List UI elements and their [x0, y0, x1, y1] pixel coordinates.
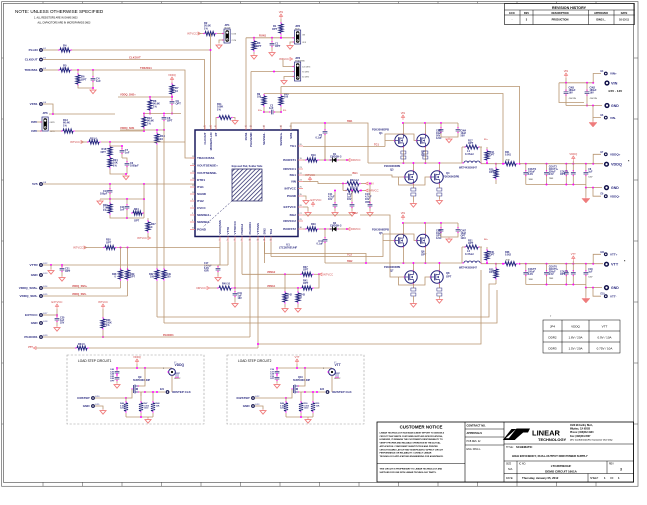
capacitor C11b — [328, 190, 338, 217]
terminal E15 VDDQ_SNS- — [20, 294, 49, 298]
capacitor C8o — [584, 164, 594, 185]
svg-text:10-13-11: 10-13-11 — [619, 19, 629, 22]
svg-text:1210: 1210 — [120, 408, 126, 410]
svg-text:INTVCC: INTVCC — [187, 32, 197, 36]
svg-text:1nF: 1nF — [125, 151, 130, 155]
svg-text:RT: RT — [214, 132, 218, 136]
svg-text:PGND: PGND — [197, 228, 207, 232]
wire VIN loop — [559, 83, 584, 103]
svg-text:DESCRIPTION: DESCRIPTION — [551, 12, 568, 15]
svg-text:OPT: OPT — [65, 270, 71, 273]
transistor Q10 SUD50N03-09P — [291, 368, 310, 394]
svg-text:7343: 7343 — [549, 178, 553, 180]
svg-text:7343: 7343 — [549, 278, 553, 280]
svg-text:DATE:: DATE: — [506, 477, 513, 480]
resistor R39 — [162, 268, 172, 323]
wire VIN rail ch2 — [402, 222, 458, 224]
wire PGOOD drop — [249, 242, 251, 337]
svg-text:SGND: SGND — [197, 192, 207, 196]
terminal E1 PLLIN — [29, 48, 47, 52]
svg-text:4.5V - 14V: 4.5V - 14V — [608, 89, 622, 93]
power flag VDDQ — [569, 152, 577, 164]
svg-text:VRNG2: VRNG2 — [267, 271, 276, 274]
wire sense1+ rail — [281, 87, 520, 164]
svg-text:2010: 2010 — [506, 159, 510, 161]
svg-text:OSCON: OSCON — [569, 98, 577, 100]
transistor Q4 PJK3006DPB — [430, 162, 460, 188]
svg-text:LTC Confidential-For Customer: LTC Confidential-For Customer Use Only — [570, 438, 613, 441]
wire ITHRG2 drop — [241, 242, 243, 274]
U1 refdes — [279, 243, 298, 250]
svg-text:E10: E10 — [601, 294, 606, 296]
svg-text:ITHRG2: ITHRG2 — [240, 224, 244, 235]
capacitor C7 — [110, 145, 130, 158]
svg-text:R24: R24 — [134, 208, 139, 211]
svg-text:TECHNOLOGY APPLICATIONS ENGINE: TECHNOLOGY APPLICATIONS ENGINEERING FOR … — [380, 455, 444, 458]
wire BG2 — [303, 212, 399, 277]
svg-text:VDDQ_SNS-: VDDQ_SNS- — [72, 293, 87, 296]
wire SW1 — [291, 120, 368, 163]
wire bus A — [157, 284, 496, 317]
resistor R33b — [303, 223, 330, 231]
svg-text:100: 100 — [167, 276, 172, 279]
resistor R29 — [126, 248, 136, 297]
transistor Q9 SUD50N03-09P — [131, 368, 150, 394]
resistor R46 — [120, 398, 128, 417]
resistor R3 — [252, 38, 262, 54]
svg-text:OPT: OPT — [421, 253, 427, 257]
wire VDDQ out jog — [593, 154, 601, 163]
svg-text:DRVCC: DRVCC — [351, 227, 361, 231]
svg-text:TRACK/SS1: TRACK/SS1 — [197, 156, 215, 160]
svg-text:CIRCUIT BOARD LAYOUT MAY SIGNI: CIRCUIT BOARD LAYOUT MAY SIGNIFICANTLY A… — [380, 448, 444, 451]
resistor R17 — [462, 140, 482, 150]
approvals column — [465, 425, 504, 452]
power INTVCC — [303, 173, 318, 182]
capacitor C1 — [270, 38, 281, 51]
wire bus B — [164, 290, 497, 323]
wire phasemd — [251, 71, 293, 131]
terminal VIN — [604, 80, 617, 85]
svg-text:PRODUCTION: PRODUCTION — [552, 19, 569, 22]
svg-text:DRVCC: DRVCC — [369, 189, 379, 193]
svg-text:SW1: SW1 — [289, 132, 293, 139]
resistor R14 — [155, 132, 165, 269]
svg-text:RUN1: RUN1 — [259, 34, 267, 38]
wire jp3 gnd — [284, 77, 293, 80]
capacitor CIN3 — [564, 83, 577, 106]
svg-text:INTVCC: INTVCC — [305, 173, 315, 177]
svg-text:R25 22: R25 22 — [350, 187, 359, 190]
svg-text:VDDQ: VDDQ — [611, 163, 622, 167]
svg-text:SUD50N03-09P: SUD50N03-09P — [293, 379, 311, 382]
svg-text:Q3: Q3 — [390, 168, 394, 172]
terminal GND out2 — [604, 285, 619, 290]
power flag VIN — [564, 69, 569, 83]
wire VDDQ_SNS — [120, 129, 164, 133]
svg-text:0.9V / 10A: 0.9V / 10A — [597, 336, 611, 340]
svg-text:SW2: SW2 — [347, 260, 353, 263]
svg-text:LOAD STEP CIRCUIT2: LOAD STEP CIRCUIT2 — [238, 359, 272, 363]
svg-text:PHASEMD: PHASEMD — [249, 133, 253, 147]
svg-text:TG2: TG2 — [269, 228, 273, 234]
svg-text:Q8: Q8 — [446, 271, 450, 275]
svg-text:VTT+: VTT+ — [610, 253, 618, 257]
wire CLKOUT — [43, 60, 205, 131]
wire extvcc — [43, 309, 58, 317]
svg-text:DCM: DCM — [232, 33, 237, 35]
svg-text:TECHNOLOGY: TECHNOLOGY — [538, 437, 567, 442]
svg-text:Q5: Q5 — [379, 231, 383, 235]
svg-text:CONTRACT NO.: CONTRACT NO. — [467, 425, 486, 428]
wire VDDQ rail — [520, 163, 603, 165]
svg-text:SENSE1-: SENSE1- — [262, 132, 266, 144]
capacitor C10 — [100, 184, 112, 199]
wire Q8 gate — [399, 277, 431, 285]
wire SW2 label drop — [264, 242, 266, 263]
power INTVCC flag — [98, 300, 108, 309]
wire VTT out jog — [593, 254, 601, 263]
svg-text:VIN: VIN — [401, 111, 406, 115]
net label SW2 — [347, 260, 353, 263]
wire JP6 pins — [37, 122, 62, 131]
svg-text:E21: E21 — [160, 389, 165, 391]
svg-text:HIGH EFFICIENCY, DUAL-OUTPUT D: HIGH EFFICIENCY, DUAL-OUTPUT DDR POWER S… — [512, 454, 588, 458]
svg-text:VOUTSENSE-: VOUTSENSE- — [197, 171, 217, 175]
bnc jack J2 VDDQ — [163, 362, 184, 392]
ground — [269, 51, 275, 56]
capacitor CIN4 — [449, 123, 467, 138]
net label VDDQ_SNS+ — [120, 93, 136, 97]
svg-text:OPT: OPT — [275, 44, 281, 48]
resistor R17b — [108, 156, 126, 174]
resistor R5 — [58, 64, 71, 73]
terminal E8 5V5 — [32, 182, 47, 186]
svg-text:Phone: (408)432-1900: Phone: (408)432-1900 — [570, 431, 594, 434]
terminal GND out1 — [604, 185, 619, 190]
svg-text:TITLE:: TITLE: — [506, 446, 514, 449]
wire VTT rail — [520, 263, 603, 265]
wire JP1 gnd — [219, 40, 223, 43]
svg-text:CMDSH-3: CMDSH-3 — [330, 224, 342, 227]
terminal E17 EXTVCC — [25, 313, 48, 317]
resistor R32 — [149, 268, 159, 317]
wire VTTR drop — [227, 242, 229, 265]
terminal E22 IO2STEP — [237, 396, 287, 400]
svg-text:BG1: BG1 — [353, 172, 359, 175]
svg-text:VDDQ_SNS-: VDDQ_SNS- — [20, 294, 38, 298]
svg-text:VTT: VTT — [28, 346, 33, 349]
resistor R7 — [170, 83, 179, 98]
wire PGOOD1 — [43, 334, 250, 337]
terminal E11 VTT+ — [601, 252, 618, 257]
power DRVCC — [347, 227, 360, 231]
svg-text:DRVCC1: DRVCC1 — [283, 167, 296, 171]
ground — [446, 238, 452, 243]
svg-text:0.47uH: 0.47uH — [465, 152, 474, 156]
ground — [446, 138, 452, 143]
svg-text:1SPD: 1SPD — [31, 131, 37, 133]
svg-text:DDR3: DDR3 — [548, 347, 556, 351]
svg-text:LOAD STEP CIRCUIT1: LOAD STEP CIRCUIT1 — [78, 359, 112, 363]
terminal E14 VDDQ_SNS+ — [19, 286, 48, 290]
terminal E6 VFB1 — [30, 102, 47, 106]
capacitor C16 — [316, 229, 327, 263]
svg-text:TG1: TG1 — [290, 144, 296, 148]
svg-text:S1-: S1- — [283, 110, 287, 112]
svg-text:BG1: BG1 — [290, 173, 297, 177]
resistor R23 — [318, 179, 366, 186]
ground — [287, 44, 293, 49]
svg-text:DEMO CIRCUIT 1601A: DEMO CIRCUIT 1601A — [545, 470, 578, 474]
svg-text:0.1uF: 0.1uF — [315, 137, 322, 140]
svg-text:1210: 1210 — [461, 237, 467, 240]
wire ls1 clk — [145, 389, 192, 394]
snubber R/C Q2 — [423, 151, 428, 159]
svg-text:16V: 16V — [238, 297, 243, 300]
resistor R24 — [127, 198, 145, 223]
svg-text:1210: 1210 — [436, 137, 442, 140]
svg-text:PGOOD1: PGOOD1 — [24, 335, 38, 339]
svg-text:SENSE2+: SENSE2+ — [197, 213, 211, 217]
resistor R6 — [76, 70, 93, 88]
svg-text:SW1: SW1 — [347, 120, 353, 123]
terminal GND in — [604, 103, 619, 108]
U1 right pins — [283, 144, 303, 231]
svg-text:CCM: CCM — [232, 40, 237, 42]
power INTVCC — [137, 236, 151, 240]
customer notice block — [377, 425, 465, 474]
svg-text:R40 10: R40 10 — [222, 283, 231, 286]
Linear Technology logo — [503, 424, 613, 442]
resistor R40 — [209, 283, 236, 291]
terminal E2 CLKOUT — [25, 57, 47, 61]
power INTVCC — [70, 140, 84, 144]
svg-text:WE7443550047: WE7443550047 — [459, 267, 478, 270]
U1 top pins — [203, 125, 293, 150]
op-amp U1 LTC3876 body — [195, 130, 298, 237]
svg-text:OPT: OPT — [272, 27, 278, 31]
svg-text:PJK3006DPB: PJK3006DPB — [372, 128, 389, 132]
wire ls2 bottom — [286, 416, 313, 423]
svg-text:50V: 50V — [461, 135, 466, 138]
svg-text:PJK3006DPB: PJK3006DPB — [372, 228, 389, 232]
net label VDDQ_SNS — [72, 293, 87, 296]
label 4.5V-14V — [608, 89, 622, 93]
svg-text:DATE: DATE — [621, 12, 628, 15]
svg-text:16V: 16V — [569, 92, 574, 95]
svg-text:Q7: Q7 — [390, 269, 394, 273]
svg-text:BOOST1: BOOST1 — [283, 158, 296, 162]
svg-text:OPT: OPT — [490, 154, 495, 157]
ground — [216, 44, 222, 49]
svg-text:LTC3876EUHF: LTC3876EUHF — [279, 246, 298, 250]
transistor Q8 OPT — [430, 262, 452, 288]
power DRVCC — [196, 286, 209, 290]
svg-text:1nF: 1nF — [96, 79, 101, 83]
svg-text:VDDQ: VDDQ — [571, 325, 580, 329]
svg-text:CMDSH-3: CMDSH-3 — [330, 155, 342, 158]
power INTVCC — [187, 32, 201, 36]
svg-text:TRK/SS1: TRK/SS1 — [25, 68, 38, 72]
svg-text:VDDQ_SNS: VDDQ_SNS — [120, 126, 135, 130]
resistor R43 — [295, 288, 306, 312]
svg-text:1210: 1210 — [436, 237, 442, 240]
terminal E10 VTT- — [593, 288, 617, 299]
resistor R12 — [142, 115, 154, 131]
svg-text:R23 2.2: R23 2.2 — [350, 179, 359, 182]
power DRVCC — [365, 189, 378, 193]
wire VTTRVCC drop — [234, 242, 236, 288]
wire vddq_sns- — [43, 295, 128, 297]
svg-text:BG2: BG2 — [353, 212, 359, 215]
resistor R35 — [489, 263, 498, 284]
svg-text:OPT: OPT — [560, 173, 565, 176]
svg-text:R15 0: R15 0 — [90, 137, 97, 141]
svg-text:JP6: JP6 — [43, 111, 49, 115]
ground — [90, 89, 96, 94]
net label TRK/SS1 — [140, 66, 152, 70]
svg-text:RUN1: RUN1 — [244, 132, 248, 140]
wire RUN1 — [246, 37, 293, 130]
resistor R26 — [103, 199, 127, 218]
capacitor COUT5 COUT6 — [544, 264, 559, 285]
net label RUN1 — [259, 34, 267, 38]
wire vddq_sns+ — [43, 287, 121, 289]
svg-text:VTT: VTT — [602, 325, 608, 329]
svg-text:SENSE1+: SENSE1+ — [279, 132, 283, 145]
svg-text:VIN: VIN — [611, 81, 618, 85]
terminal E23 GND ls2 — [243, 404, 266, 414]
wire VIN rail ch1 — [402, 122, 458, 124]
terminal E19 PGOOD1 — [24, 335, 48, 339]
capacitor C13 — [365, 183, 373, 217]
ground — [232, 119, 238, 124]
terminal VTT — [604, 260, 626, 267]
wire ls1 bottom — [126, 416, 153, 423]
svg-text:GND: GND — [611, 104, 619, 108]
svg-text:10K: 10K — [156, 405, 160, 407]
svg-text:PLLIN: PLLIN — [29, 48, 39, 52]
transistor Q7 PJK3006DPB — [384, 262, 417, 288]
svg-text:VDDQ: VDDQ — [569, 152, 577, 156]
svg-text:VTTSNS: VTTSNS — [256, 223, 260, 234]
svg-text:3: 3 — [620, 468, 622, 472]
svg-text:LTC3876EUHF: LTC3876EUHF — [551, 464, 572, 468]
svg-text:VDDQ: VDDQ — [168, 73, 176, 77]
svg-text:PHASEMD: PHASEMD — [295, 59, 305, 62]
resistor R18 — [484, 139, 495, 164]
svg-text:0.47uH: 0.47uH — [465, 252, 474, 256]
svg-text:DING L.: DING L. — [596, 19, 605, 22]
svg-text:120 DEG: 120 DEG — [302, 66, 311, 68]
svg-text:LINEAR TECHNOLOGY HAS MADE A B: LINEAR TECHNOLOGY HAS MADE A BEST EFFORT… — [380, 432, 445, 435]
power flag VTT — [571, 252, 576, 264]
resistor R47 — [139, 392, 150, 417]
capacitor C11 — [120, 199, 129, 219]
capacitor C20 — [54, 316, 65, 331]
svg-text:16V: 16V — [347, 198, 352, 201]
svg-text:10K: 10K — [316, 405, 320, 407]
terminal E18 GND — [31, 321, 48, 325]
svg-text:OSCON: OSCON — [590, 98, 598, 100]
resistor R16 — [101, 142, 113, 158]
svg-text:THIS CIRCUIT IS PROPRIETARY TO: THIS CIRCUIT IS PROPRIETARY TO LINEAR TE… — [380, 468, 443, 471]
svg-text:INTVCC: INTVCC — [70, 140, 80, 144]
svg-text:VIN: VIN — [564, 69, 569, 73]
svg-text:IOISTEP CLK: IOISTEP CLK — [172, 390, 192, 394]
resistor R27 — [146, 218, 156, 236]
svg-text:PJK3006DPB: PJK3006DPB — [384, 164, 400, 168]
svg-text:1. ALL RESISTORS ARE IN OHMS 0: 1. ALL RESISTORS ARE IN OHMS 0603 — [34, 17, 78, 20]
power flag VIN — [401, 111, 406, 120]
svg-text:REV: REV — [609, 464, 614, 466]
title block frame — [377, 422, 634, 482]
inductor L2 0.47uH — [459, 247, 497, 270]
power flag VTT ls2 — [294, 355, 299, 368]
resistor R9 — [257, 93, 266, 113]
svg-text:EXTVCC: EXTVCC — [52, 300, 63, 304]
svg-text:OPT: OPT — [81, 78, 87, 82]
capacitor bank C36-C39 — [270, 369, 280, 388]
svg-text:1210: 1210 — [304, 408, 310, 410]
diode D2 CMDSH-3 — [329, 222, 348, 231]
svg-text:1000pF: 1000pF — [130, 165, 139, 168]
svg-text:OPT: OPT — [468, 242, 474, 245]
svg-text:CVCC: CVCC — [197, 206, 207, 210]
wire sense1 plus — [280, 87, 282, 94]
svg-text:1.5V / 20A: 1.5V / 20A — [568, 347, 582, 351]
resistor R21s 0.001 — [496, 151, 521, 166]
terminal E6b VIN- — [593, 106, 616, 120]
capacitor C19 — [232, 288, 243, 307]
title rows — [504, 444, 634, 482]
svg-text:2.5V: 2.5V — [549, 173, 554, 176]
svg-text:100: 100 — [150, 276, 155, 279]
svg-text:GND: GND — [611, 286, 619, 290]
wire mode vert — [210, 34, 212, 131]
resistor R51 — [311, 391, 320, 417]
svg-text:CLKOUT: CLKOUT — [25, 58, 38, 62]
resistor R31 — [462, 240, 482, 250]
resistor R19 — [305, 146, 330, 162]
svg-text:DRVCC: DRVCC — [196, 286, 206, 290]
svg-text:INTVCC: INTVCC — [137, 236, 147, 240]
svg-text:REV: REV — [524, 12, 529, 15]
wire VDDQ gnd rail — [526, 184, 602, 189]
svg-text:EXTVCC: EXTVCC — [311, 198, 322, 202]
capacitor COUT3 — [560, 164, 576, 185]
note text — [15, 9, 104, 25]
resistor R38s 0.002 — [496, 251, 521, 266]
power flag VDDQ — [168, 73, 176, 84]
svg-text:OPT: OPT — [303, 269, 309, 272]
wire VIN gnd rail — [566, 105, 602, 107]
jumper JP1 MODE — [222, 23, 236, 43]
svg-text:0SPD: 0SPD — [50, 122, 56, 124]
terminal E12 VTTR — [30, 263, 49, 267]
svg-text:DRVCC: DRVCC — [351, 158, 361, 162]
wire TG1 — [303, 144, 385, 147]
wire VIN input rail — [559, 82, 594, 84]
svg-text:OPT: OPT — [256, 44, 262, 48]
capacitor C12 — [347, 191, 355, 217]
load step box 2 — [227, 355, 364, 424]
wire VRNG1 — [235, 287, 301, 289]
svg-text:INTVCC: INTVCC — [98, 300, 108, 304]
svg-text:VTT: VTT — [294, 355, 299, 359]
wire SW2 node — [265, 242, 463, 264]
